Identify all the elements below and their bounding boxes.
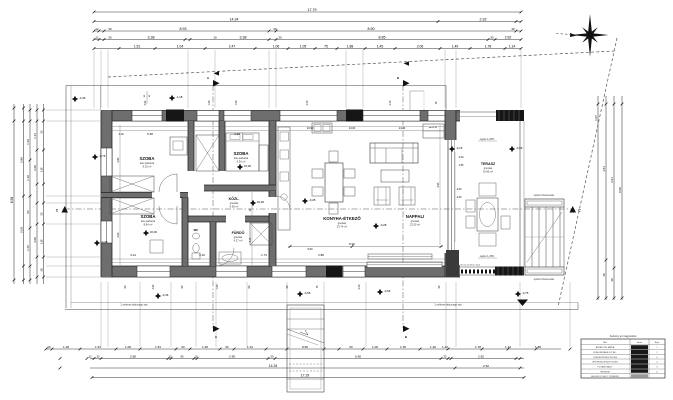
legend table: [581, 339, 665, 378]
dimension line top row1 17.79: [94, 11, 521, 13]
interior dim chain szoba1: [119, 125, 121, 192]
svg-text:1.06: 1.06: [273, 45, 280, 49]
section flag B top: [403, 80, 410, 87]
spot elevation -0.58 south: [297, 291, 303, 297]
svg-text:5.38: 5.38: [147, 132, 153, 136]
svg-text:1 méteres alácsurgó sáv: 1 méteres alácsurgó sáv: [120, 304, 148, 307]
svg-text:GYEPSZŐNYEG TELJES: GYEPSZŐNYEG TELJES: [593, 356, 618, 359]
svg-text:-0,75: -0,75: [522, 291, 529, 295]
svg-text:1.26: 1.26: [40, 239, 44, 245]
dimension line bottom row4: [92, 377, 524, 379]
svg-text:1.00: 1.00: [125, 345, 131, 349]
north wall window kitchen: [280, 111, 337, 122]
door arc kitchen: [276, 196, 290, 210]
wardrobe szoba2: [259, 145, 268, 171]
svg-text:2.47: 2.47: [229, 45, 236, 49]
section flag A top: [213, 80, 220, 87]
svg-text:1.18: 1.18: [63, 345, 69, 349]
terrace NE pillar: [496, 110, 524, 121]
svg-text:17.29: 17.29: [301, 374, 310, 378]
svg-text:1.31: 1.31: [247, 345, 253, 349]
section line A-A: [212, 85, 214, 328]
shower crossed: [250, 223, 272, 245]
svg-text:KÖZL.: KÖZL.: [229, 196, 240, 201]
svg-text:2.80: 2.80: [117, 157, 120, 162]
dimension line left v1: [13, 104, 15, 284]
canopy detail right: [410, 90, 424, 92]
spot elevation -0.75 terrace s: [515, 291, 521, 297]
extension lines left: [46, 109, 100, 111]
sill line top: [107, 126, 445, 128]
svg-text:1.51: 1.51: [134, 45, 141, 49]
svg-text:GPB HOMLOKZAT TELJES: GPB HOMLOKZAT TELJES: [592, 361, 618, 364]
dining chairs right: [344, 169, 355, 178]
spot elevation +0.46: [72, 96, 78, 102]
svg-text:3.10: 3.10: [199, 253, 205, 257]
svg-text:2.80: 2.80: [130, 355, 136, 359]
sill line bottom: [107, 258, 445, 260]
svg-text:greslap: greslap: [484, 166, 493, 170]
svg-text:2.92: 2.92: [505, 36, 512, 40]
section flag C right: [570, 206, 577, 213]
north wall window szoba2: [224, 111, 251, 122]
interior dim line kitchen-nappali: [288, 246, 443, 248]
desk szoba1: [170, 137, 187, 155]
svg-text:9.29 m²: 9.29 m²: [143, 165, 152, 169]
svg-text:8.93: 8.93: [180, 27, 187, 31]
svg-text:4.14: 4.14: [130, 253, 136, 257]
interior wall szoba1-hall: [188, 121, 194, 171]
svg-text:-0,46: -0,46: [79, 96, 86, 100]
wc toilet: [193, 244, 199, 253]
walkway steps: [287, 318, 324, 320]
north wall window nappali: [363, 111, 420, 122]
svg-text:12: 12: [95, 27, 99, 31]
svg-text:2.88: 2.88: [318, 253, 324, 257]
interior wall bath top: [245, 216, 276, 222]
section line B-B: [402, 85, 404, 328]
interior wall left rooms divider: [101, 193, 152, 198]
terrace SE pillar: [495, 267, 524, 276]
svg-text:30: 30: [278, 36, 282, 40]
south wall window szoba3: [137, 266, 170, 277]
svg-text:FÜRDŐ: FÜRDŐ: [232, 230, 245, 235]
kitchen counter: [278, 127, 290, 230]
svg-text:12: 12: [95, 36, 99, 40]
spot elevation +0.00 szoba3: [143, 230, 149, 236]
north wall: [101, 111, 460, 122]
svg-text:13,00: 13,00: [349, 126, 356, 130]
north wall pillar 2: [346, 110, 363, 122]
svg-text:10,90: 10,90: [307, 126, 314, 130]
bed szoba3 crossed: [110, 198, 154, 214]
svg-text:NAPPALI: NAPPALI: [406, 214, 425, 219]
north wall pillar chimney: [166, 110, 184, 122]
door arc szoba3: [159, 206, 177, 224]
svg-text:-0,06: -0,06: [516, 146, 523, 150]
property boundary dashed upper: [108, 51, 614, 77]
door arc szoba1: [159, 174, 177, 192]
sofa: [370, 143, 418, 163]
interior dim chain kozl: [251, 192, 253, 265]
svg-text:Lejtés 1,25%: Lejtés 1,25%: [480, 138, 495, 141]
dimension line right v1: [597, 96, 599, 300]
svg-text:2.02: 2.02: [152, 284, 155, 289]
svg-text:96: 96: [26, 210, 30, 214]
west wall: [101, 111, 112, 278]
roof overhang corner line: [100, 86, 102, 111]
svg-text:4.81: 4.81: [602, 166, 606, 172]
spot elevation -0.28 kitchen: [302, 198, 308, 204]
svg-text:greslap: greslap: [338, 221, 347, 225]
interior wall hall-szoba2: [219, 121, 225, 171]
coffee table: [381, 170, 409, 182]
svg-text:1.35: 1.35: [400, 345, 406, 349]
armchair 1: [374, 187, 390, 205]
svg-text:1.05: 1.05: [300, 45, 307, 49]
walkway line low: [287, 378, 324, 380]
svg-text:1.73: 1.73: [261, 253, 267, 257]
drainage bottom bar: [525, 267, 564, 275]
west wall window szoba1: [101, 148, 112, 176]
dimension line right v2: [605, 96, 607, 300]
drainage slats: [524, 207, 526, 267]
roof overhang right: [445, 86, 447, 111]
svg-text:30: 30: [490, 36, 494, 40]
plot edge line left: [70, 86, 72, 309]
section flag C left: [62, 206, 69, 213]
svg-text:2.92: 2.92: [480, 18, 487, 22]
dimension line top row5 room chain: [94, 48, 521, 50]
spot elevation -0.66 south: [377, 289, 383, 295]
svg-text:±0,00: ±0,00: [150, 230, 158, 234]
south wall window bath: [272, 266, 306, 277]
svg-text:2.20: 2.20: [459, 156, 464, 159]
interior wall szoba2 right: [269, 121, 276, 191]
svg-text:6.38 m²: 6.38 m²: [230, 205, 239, 209]
svg-text:8.58: 8.58: [10, 197, 14, 204]
bed szoba2: [226, 133, 259, 171]
svg-text:pm=2,42: pm=2,42: [429, 127, 438, 129]
svg-text:1.51: 1.51: [155, 345, 161, 349]
walkway slope diagonal: [287, 329, 324, 343]
svg-text:60: 60: [225, 345, 229, 349]
svg-text:16.95 m²: 16.95 m²: [483, 170, 493, 174]
svg-text:WC: WC: [194, 228, 199, 232]
roof overhang left: [65, 86, 67, 309]
svg-text:1.26: 1.26: [40, 167, 44, 173]
east wall bottom pillar: [445, 253, 456, 277]
dining chair top: [329, 151, 338, 162]
interior wall kozl-kitchen: [269, 191, 276, 197]
terrace chair left 1: [466, 200, 475, 212]
dimension line left v2: [23, 104, 25, 284]
north wall window szoba1: [132, 111, 162, 122]
drainage diagonal: [527, 212, 562, 262]
svg-text:8.50: 8.50: [302, 345, 308, 349]
svg-text:-0,66: -0,66: [384, 289, 391, 293]
svg-text:1.00: 1.00: [372, 345, 378, 349]
dimension line left v4: [36, 104, 38, 284]
extension lines top: [93, 50, 95, 108]
north wall window hall: [197, 111, 219, 122]
spot elevation -0.75 left: [92, 154, 98, 160]
window dim 90: [146, 91, 148, 104]
svg-text:1.49: 1.49: [452, 45, 459, 49]
kitchen island: [312, 123, 332, 133]
interior wall under szoba2: [204, 185, 276, 191]
section flag B bottom: [403, 326, 410, 333]
svg-text:-0,75: -0,75: [99, 154, 106, 158]
svg-text:1.55: 1.55: [459, 164, 464, 167]
svg-text:9.36 m²: 9.36 m²: [237, 160, 246, 164]
svg-text:8.90: 8.90: [368, 27, 375, 31]
svg-text:10: 10: [213, 36, 217, 40]
bath tub: [219, 252, 241, 264]
svg-text:8.90: 8.90: [349, 242, 355, 246]
svg-text:2.10: 2.10: [250, 237, 252, 242]
walkway outline: [287, 305, 324, 392]
svg-text:75: 75: [324, 45, 328, 49]
extension lines bottom: [100, 282, 102, 347]
dimension line left v5: [43, 104, 45, 284]
svg-text:30: 30: [602, 273, 606, 277]
dining chairs left: [312, 169, 323, 178]
svg-text:60: 60: [349, 345, 353, 349]
svg-text:4.60: 4.60: [457, 188, 462, 191]
svg-text:6.90: 6.90: [307, 247, 313, 251]
svg-text:2.08: 2.08: [33, 165, 37, 171]
svg-text:22.50 m²: 22.50 m²: [410, 223, 420, 227]
spot elevation -0.15 terrace: [449, 146, 455, 152]
svg-text:1.78: 1.78: [485, 45, 492, 49]
spot elevation -0.06 terrace: [509, 146, 515, 152]
svg-text:-0,28: -0,28: [380, 223, 387, 227]
svg-text:-1,18: -1,18: [176, 95, 183, 99]
svg-text:17.79: 17.79: [308, 8, 317, 12]
dimension line bottom row3: [90, 367, 524, 369]
drainage top bar: [525, 199, 564, 207]
dimension line top row3 8.93 / 8.90: [94, 30, 521, 32]
svg-text:greslap: greslap: [411, 219, 420, 223]
svg-text:8.85: 8.85: [379, 36, 386, 40]
eaves drip line bottom: [65, 309, 578, 311]
bed szoba1 crossed: [110, 176, 154, 192]
interior wall corridor south: [188, 216, 226, 222]
svg-text:30: 30: [273, 27, 277, 31]
svg-text:4.27 m²: 4.27 m²: [234, 239, 243, 243]
terrace chair bottom: [479, 233, 496, 246]
svg-text:30: 30: [511, 27, 515, 31]
svg-text:2.06: 2.06: [417, 45, 424, 49]
svg-text:1.00: 1.00: [208, 100, 211, 105]
svg-text:1.19: 1.19: [118, 132, 124, 136]
svg-text:14,20: 14,20: [399, 126, 406, 130]
svg-text:épített vízelvezetés: épített vízelvezetés: [534, 194, 555, 197]
svg-text:SZOBA: SZOBA: [139, 156, 154, 161]
dimension line left v3: [29, 104, 31, 284]
svg-text:-0,15: -0,15: [456, 146, 463, 150]
svg-text:1.42: 1.42: [442, 345, 448, 349]
svg-text:2.86: 2.86: [20, 157, 24, 163]
terrace table: [477, 198, 498, 231]
south wall window strip nappali: [367, 262, 442, 268]
north wall window small: [428, 111, 446, 122]
dimension line right v4: [621, 96, 623, 300]
terrace south edge lines: [459, 266, 495, 268]
walkway slope arrow: [300, 330, 308, 335]
svg-text:1.14: 1.14: [505, 345, 511, 349]
spot elevation -0.35 left: [94, 240, 100, 246]
svg-text:30: 30: [108, 36, 112, 40]
svg-text:Fedvény jel magyarázat: Fedvény jel magyarázat: [610, 335, 637, 338]
svg-text:TERASZ: TERASZ: [481, 162, 496, 166]
spot elevation +0.00 hall: [237, 164, 243, 170]
spot elevation -0.28 nappali: [373, 223, 379, 229]
svg-text:ta következő ütemben épül: ta következő ütemben épül: [454, 264, 481, 267]
svg-text:lam.parketta: lam.parketta: [140, 161, 155, 165]
svg-text:1.13: 1.13: [33, 133, 37, 139]
dining table: [325, 163, 343, 202]
svg-text:minta: minta: [637, 341, 643, 344]
svg-text:1 méteres alácsurgó sáv: 1 méteres alácsurgó sáv: [434, 304, 462, 307]
svg-text:1.78: 1.78: [475, 345, 481, 349]
dimension line top row4 3.38 / 3.38 / 8.85: [94, 39, 521, 41]
svg-text:4.95: 4.95: [437, 182, 440, 187]
svg-text:1.88: 1.88: [347, 45, 354, 49]
wc basin: [193, 233, 200, 239]
svg-text:1.50: 1.50: [235, 100, 238, 105]
svg-text:3.38: 3.38: [148, 36, 155, 40]
terrace chair top: [479, 183, 496, 196]
east wall glazing: [447, 140, 449, 253]
svg-text:60: 60: [181, 345, 185, 349]
svg-text:30: 30: [40, 268, 44, 272]
north star compass: [588, 14, 592, 35]
svg-text:greslap: greslap: [230, 201, 239, 205]
dimension line right v3: [613, 96, 615, 300]
svg-text:1.07: 1.07: [594, 115, 598, 121]
svg-text:8.84 m²: 8.84 m²: [144, 223, 153, 227]
SE corner pillar: [446, 250, 459, 277]
svg-text:1.80: 1.80: [535, 345, 541, 349]
svg-text:30: 30: [108, 27, 112, 31]
svg-text:2.40: 2.40: [389, 100, 392, 105]
svg-text:1.14: 1.14: [509, 45, 516, 49]
interior wall wc left: [182, 198, 188, 267]
section flag A bottom: [213, 326, 220, 333]
svg-text:2.40: 2.40: [306, 100, 309, 105]
east wall top pillar: [445, 111, 456, 141]
svg-text:1.20: 1.20: [202, 345, 208, 349]
terrace east edge: [519, 121, 521, 267]
terrace chair left 2: [466, 216, 475, 228]
svg-text:HOMOKFRANKOLT BE..: HOMOKFRANKOLT BE..: [593, 351, 617, 354]
svg-text:1.10: 1.10: [26, 175, 30, 181]
spot elevation -1.18 top: [169, 95, 175, 101]
svg-text:1.20: 1.20: [430, 345, 436, 349]
door arc entry: [216, 248, 234, 266]
svg-text:14.34: 14.34: [269, 364, 278, 368]
svg-text:1.45: 1.45: [377, 45, 384, 49]
svg-text:1.51: 1.51: [95, 345, 101, 349]
svg-text:épített vízelvezetés: épített vízelvezetés: [534, 278, 555, 281]
section line C-C: [64, 208, 572, 210]
south wall pillar: [326, 266, 342, 278]
svg-text:PL KAVICSÁGY: PL KAVICSÁGY: [598, 366, 614, 369]
svg-text:6.91: 6.91: [610, 177, 614, 183]
tv board: [368, 254, 432, 259]
svg-text:2.40: 2.40: [457, 196, 462, 199]
svg-text:2.02: 2.02: [144, 100, 147, 105]
property boundary dashed right: [558, 38, 617, 307]
slope arrow on drip strip: [517, 300, 528, 307]
svg-text:20: 20: [47, 345, 51, 349]
svg-text:Lejtés 1,25%: Lejtés 1,25%: [480, 255, 495, 258]
svg-text:14.34: 14.34: [230, 18, 239, 22]
north star west arrow: [570, 33, 577, 37]
svg-text:2.20: 2.20: [358, 284, 361, 289]
south wall door nappali: [343, 266, 365, 277]
svg-text:2.52: 2.52: [483, 364, 489, 368]
south wall: [101, 266, 460, 277]
dresser szoba3: [150, 240, 163, 253]
svg-text:1.65: 1.65: [26, 245, 30, 251]
svg-text:3.38: 3.38: [240, 36, 247, 40]
walkway dashed lines: [289, 363, 322, 365]
svg-text:±0,00: ±0,00: [257, 200, 265, 204]
dimension line bottom row2: [90, 358, 524, 360]
cabinet nappali NE: [423, 124, 444, 138]
terrace north edge lines: [456, 111, 496, 113]
svg-text:30: 30: [610, 278, 614, 282]
svg-text:2.95: 2.95: [229, 355, 235, 359]
arrowhead on boundary at A: [214, 71, 220, 75]
svg-text:lam.parketta: lam.parketta: [141, 219, 156, 223]
roof overhang top: [66, 85, 446, 87]
drip strip inner line: [71, 302, 578, 304]
svg-text:MEGJELÖLT HELYI TÖRMELÉK: MEGJELÖLT HELYI TÖRMELÉK: [591, 375, 620, 378]
arrowhead on boundary at B: [404, 61, 410, 65]
dimension line bottom row1: [46, 348, 561, 350]
svg-text:-0,36: -0,36: [162, 293, 169, 297]
svg-text:-0,28: -0,28: [309, 198, 316, 202]
svg-text:3.38: 3.38: [234, 132, 240, 136]
spot elevation -0.36 south: [155, 293, 161, 299]
svg-text:lam.parketta: lam.parketta: [234, 156, 249, 160]
svg-text:2.08: 2.08: [20, 227, 24, 233]
south wall door entry: [216, 266, 247, 277]
spot elevation +0.00 kozl: [250, 200, 256, 206]
svg-text:1.04: 1.04: [177, 45, 184, 49]
svg-text:-0,35: -0,35: [101, 240, 108, 244]
svg-text:±0,00: ±0,00: [244, 164, 252, 168]
svg-text:1.60: 1.60: [26, 139, 30, 145]
svg-text:2.60: 2.60: [117, 232, 120, 237]
west wall window szoba3: [101, 221, 112, 243]
armchair 2: [399, 187, 415, 205]
svg-text:KONYHA-ÉTKEZŐ: KONYHA-ÉTKEZŐ: [323, 216, 361, 221]
svg-text:1.00: 1.00: [216, 284, 219, 289]
dimension line top row2 14.34: [94, 21, 521, 23]
svg-text:8.08: 8.08: [618, 187, 622, 193]
svg-text:greslap: greslap: [234, 235, 243, 239]
svg-text:TÉRBURK: TÉRBURK: [600, 371, 611, 374]
wardrobe hall crossed: [196, 135, 219, 171]
svg-text:3.08: 3.08: [33, 237, 37, 243]
interior wall bath left: [210, 222, 216, 266]
dining chair bottom: [329, 203, 338, 214]
